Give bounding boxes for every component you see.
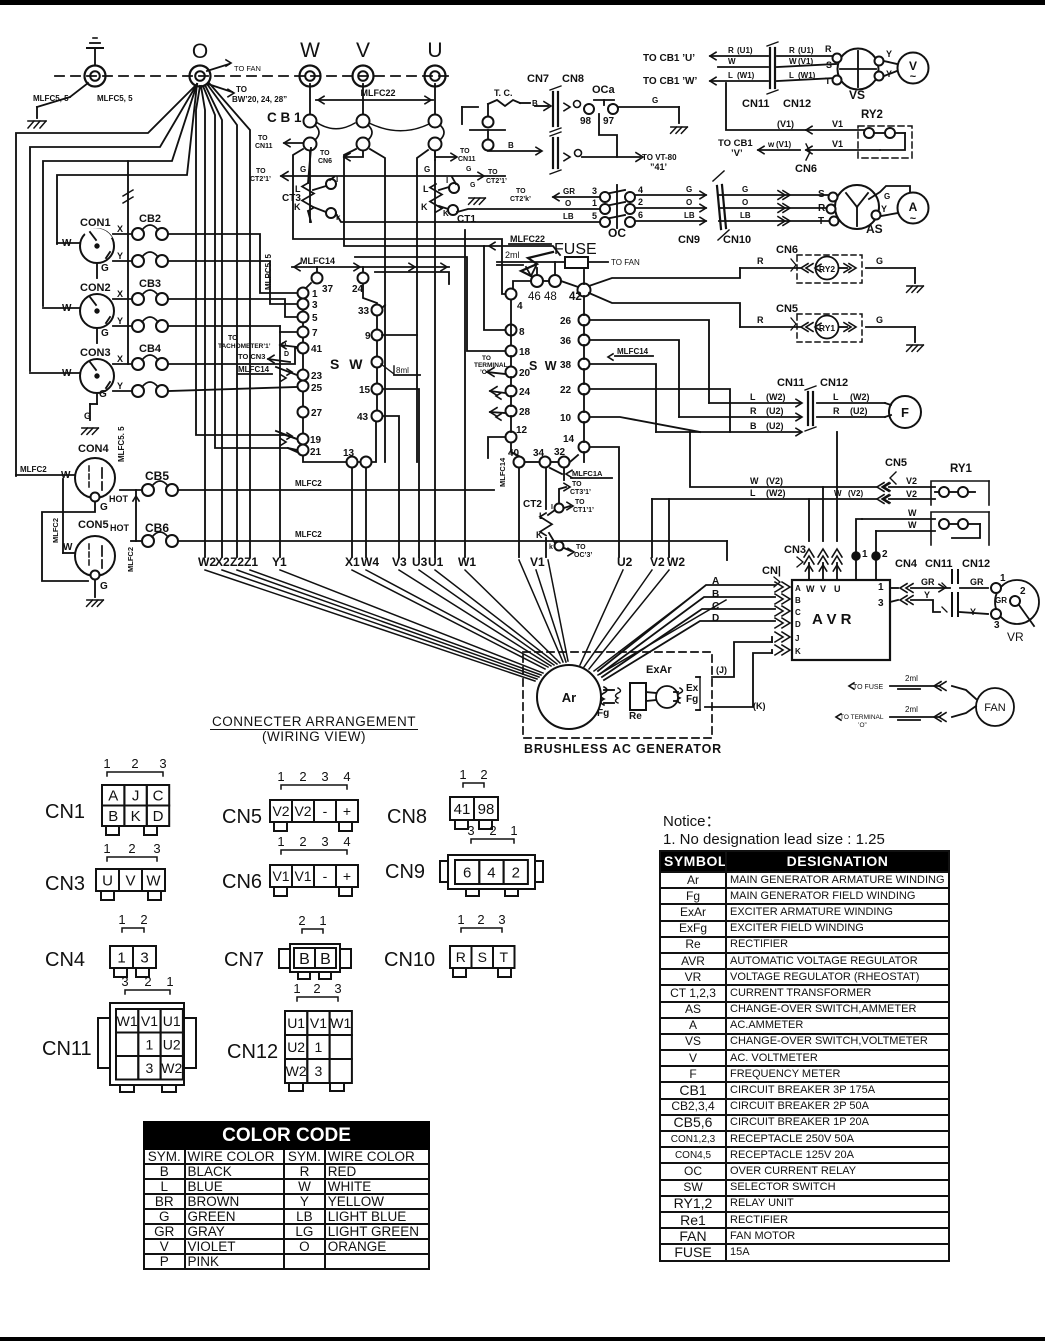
- svg-text:MLFC2: MLFC2: [295, 479, 322, 488]
- svg-text:CN4: CN4: [895, 558, 918, 570]
- svg-text:2: 2: [477, 912, 484, 927]
- svg-text:32: 32: [554, 447, 566, 458]
- wire long verticals mid: [370, 149, 385, 462]
- wire CB1-W to CN11: [284, 142, 303, 144]
- svg-text:K: K: [536, 530, 543, 540]
- svg-text:V2: V2: [294, 803, 311, 819]
- voltage regulator VR: [995, 580, 1039, 624]
- wire 42 fanout: [583, 270, 585, 284]
- wire 13 drops: [351, 468, 353, 557]
- wires xfmr to VS: [777, 55, 836, 57]
- svg-text:T: T: [499, 949, 508, 965]
- svg-text:D: D: [153, 808, 164, 825]
- svg-text:GR: GR: [970, 577, 984, 587]
- change-over switch VS: [838, 49, 879, 90]
- svg-text:8ml: 8ml: [396, 366, 409, 375]
- svg-text:1: 1: [457, 912, 464, 927]
- wire CB1-V to CN6: [344, 151, 363, 157]
- svg-text:TO VT-80: TO VT-80: [642, 153, 677, 162]
- svg-text:O: O: [742, 198, 748, 207]
- svg-text:1: 1: [312, 289, 318, 300]
- svg-text:GR: GR: [921, 577, 935, 587]
- svg-text:L: L: [423, 184, 429, 194]
- wire U2 V2 W2 risers: [651, 499, 653, 557]
- svg-text:G: G: [742, 185, 748, 194]
- color code table: [143, 1121, 430, 1270]
- svg-text:MLFC22: MLFC22: [510, 234, 545, 244]
- junction 46 48 42: [531, 275, 543, 287]
- svg-text:Y: Y: [881, 204, 887, 214]
- svg-text:CT3’1’: CT3’1’: [570, 489, 591, 496]
- svg-text:R: R: [757, 256, 764, 266]
- svg-text:3: 3: [153, 841, 160, 856]
- svg-text:2: 2: [882, 549, 888, 560]
- svg-text:CN10: CN10: [723, 234, 751, 246]
- svg-text:V2: V2: [906, 476, 917, 486]
- transformer CN11 CN12 top: [769, 48, 771, 88]
- wire OCa to ground: [618, 106, 679, 108]
- svg-text:R: R: [818, 203, 826, 214]
- svg-text:S: S: [826, 60, 832, 70]
- svg-text:MLFC22: MLFC22: [360, 88, 395, 98]
- svg-text:3: 3: [159, 756, 166, 771]
- svg-text:CT2’k’: CT2’k’: [510, 196, 531, 203]
- svg-text:34: 34: [533, 448, 545, 459]
- wire CB5 CB6 vertical: [135, 490, 137, 541]
- svg-text:TO: TO: [258, 135, 268, 142]
- svg-text:1: 1: [117, 949, 125, 966]
- wire risers to CN3: [808, 499, 810, 541]
- svg-text:1: 1: [118, 912, 125, 927]
- current transformer CT3: [308, 148, 311, 183]
- frequency meter F: [889, 396, 921, 428]
- wire V1 riser: [726, 83, 806, 130]
- svg-text:CN7: CN7: [527, 73, 549, 85]
- svg-text:W1: W1: [330, 1015, 351, 1031]
- svg-text:TO: TO: [575, 499, 585, 506]
- svg-text:LB: LB: [740, 211, 751, 220]
- svg-text:TO CB1 ’W’: TO CB1 ’W’: [643, 76, 697, 87]
- svg-text:2ml: 2ml: [905, 674, 918, 683]
- svg-text:G: G: [876, 315, 883, 325]
- svg-text:CN11: CN11: [42, 1038, 92, 1060]
- svg-text:Y: Y: [117, 316, 123, 326]
- svg-text:U: U: [102, 872, 113, 889]
- rectifier Re: [630, 683, 646, 710]
- node U terminal: [425, 66, 446, 87]
- svg-text:G: G: [686, 185, 692, 194]
- svg-text:MLFC14: MLFC14: [498, 457, 507, 487]
- svg-text:CN8: CN8: [562, 73, 584, 85]
- svg-text:V1: V1: [272, 868, 289, 884]
- svg-text:41: 41: [454, 801, 471, 818]
- wire SW right columns: [510, 300, 512, 345]
- wire 46 48 to col: [513, 281, 531, 288]
- svg-text:CB3: CB3: [139, 278, 161, 290]
- svg-text:3: 3: [321, 834, 328, 849]
- wire SW right to xfmr rows: [590, 320, 709, 403]
- svg-text:W: W: [789, 57, 797, 66]
- svg-text:ExAr: ExAr: [646, 664, 672, 676]
- svg-text:3: 3: [467, 823, 474, 838]
- svg-text:O: O: [565, 199, 571, 208]
- svg-text:X2: X2: [215, 555, 230, 569]
- svg-text:TO CB1 ’U’: TO CB1 ’U’: [643, 53, 695, 64]
- svg-text:GR: GR: [563, 187, 575, 196]
- svg-text:CT2: CT2: [523, 499, 542, 510]
- svg-text:Y: Y: [117, 381, 123, 391]
- svg-text:2: 2: [480, 767, 487, 782]
- svg-text:3: 3: [334, 981, 341, 996]
- svg-text:BW’20, 24, 28”: BW’20, 24, 28”: [232, 95, 287, 104]
- svg-text:X: X: [117, 289, 123, 299]
- svg-text:VS: VS: [849, 88, 865, 102]
- svg-text:MLFC2: MLFC2: [20, 465, 47, 474]
- svg-text:R: R: [750, 406, 757, 416]
- wire CT2 arrows: [559, 487, 566, 503]
- transformer CN9 CN10: [717, 186, 721, 229]
- svg-text:G: G: [652, 96, 658, 105]
- svg-text:MLPC5. 5: MLPC5. 5: [264, 253, 273, 290]
- svg-text:W4: W4: [361, 555, 379, 569]
- svg-text:G: G: [100, 581, 108, 592]
- schematic svg: [0, 0, 1045, 770]
- svg-text:Fg: Fg: [597, 708, 609, 719]
- junction nodes 1 2: [856, 519, 862, 551]
- svg-text:3: 3: [315, 1063, 323, 1079]
- wire mid verticals: [309, 151, 311, 222]
- svg-text:B: B: [750, 421, 757, 431]
- svg-text:MLFC2: MLFC2: [126, 547, 135, 572]
- svg-text:K: K: [131, 808, 141, 825]
- svg-text:U: U: [834, 584, 841, 594]
- svg-text:CN12: CN12: [820, 377, 848, 389]
- svg-text:V1: V1: [530, 555, 545, 569]
- svg-text:CN6: CN6: [776, 244, 798, 256]
- svg-text:CON1: CON1: [80, 217, 111, 229]
- svg-text:B: B: [108, 808, 118, 825]
- svg-text:TO FUSE: TO FUSE: [853, 684, 884, 691]
- svg-text:CON4: CON4: [78, 443, 109, 455]
- svg-text:L: L: [750, 392, 756, 402]
- svg-text:W2: W2: [161, 1060, 182, 1076]
- svg-text:MLFC14: MLFC14: [300, 256, 335, 266]
- svg-text:MLFC14: MLFC14: [617, 347, 649, 356]
- circuit breaker CB1 tie arcs: [316, 122, 355, 129]
- svg-text:L: L: [789, 71, 794, 80]
- exciter field ExFg: [678, 688, 683, 703]
- svg-text:TO: TO: [572, 481, 582, 488]
- svg-text:5: 5: [312, 313, 318, 324]
- svg-text:1: 1: [293, 981, 300, 996]
- svg-text:1: 1: [510, 823, 517, 838]
- svg-text:TO: TO: [488, 169, 498, 176]
- svg-text:3: 3: [994, 620, 1000, 631]
- svg-text:3: 3: [140, 949, 148, 966]
- svg-text:D: D: [795, 620, 801, 629]
- svg-text:TO TERMINAL: TO TERMINAL: [840, 714, 884, 721]
- svg-text:CN11: CN11: [925, 558, 953, 570]
- svg-text:1: 1: [319, 913, 326, 928]
- svg-text:L: L: [750, 488, 756, 498]
- svg-text:2: 2: [298, 913, 305, 928]
- svg-text:U3: U3: [412, 555, 428, 569]
- svg-text:2: 2: [489, 823, 496, 838]
- svg-text:X: X: [117, 224, 123, 234]
- svg-text:CT1: CT1: [457, 214, 476, 225]
- svg-text:1: 1: [146, 1036, 154, 1052]
- svg-text:I: I: [336, 175, 338, 184]
- svg-text:R: R: [789, 46, 795, 55]
- svg-text:CN12: CN12: [227, 1041, 278, 1063]
- wires OC to CN9 CN10: [635, 194, 706, 196]
- main armature Ar: [537, 665, 601, 729]
- svg-text:4: 4: [487, 864, 495, 881]
- svg-text:W: W: [834, 489, 842, 498]
- svg-text:CN4: CN4: [45, 949, 85, 971]
- svg-text:20: 20: [519, 368, 531, 379]
- svg-text:TACHOMETER’1’: TACHOMETER’1’: [218, 343, 271, 350]
- relay lower box: [862, 518, 935, 520]
- svg-text:37: 37: [322, 284, 334, 295]
- svg-text:G: G: [470, 182, 476, 189]
- svg-text:W: W: [908, 508, 917, 518]
- ground terminal: [85, 66, 106, 87]
- wire CB6 row MLFC2: [178, 540, 727, 542]
- svg-text:+: +: [343, 868, 351, 884]
- node V terminal: [353, 66, 374, 87]
- svg-text:Z2: Z2: [230, 555, 244, 569]
- svg-text:B: B: [508, 141, 514, 150]
- wire TO CB1 W row2: [718, 66, 768, 68]
- svg-text:19: 19: [310, 435, 322, 446]
- svg-text:CON5: CON5: [78, 519, 109, 531]
- svg-text:7: 7: [312, 328, 318, 339]
- svg-text:G: G: [424, 165, 430, 174]
- switch contacts left column: [298, 288, 309, 299]
- svg-text:B: B: [320, 951, 331, 968]
- svg-text:24: 24: [519, 387, 531, 398]
- svg-text:1: 1: [277, 834, 284, 849]
- svg-text:(W1): (W1): [798, 71, 816, 80]
- automatic voltage regulator AVR: [792, 580, 890, 660]
- svg-text:FAN: FAN: [984, 702, 1005, 714]
- svg-text:CN8: CN8: [387, 806, 427, 828]
- transformer to VR: [951, 570, 953, 583]
- svg-text:R: R: [456, 949, 466, 965]
- svg-text:G: G: [101, 263, 109, 274]
- svg-text:W2: W2: [198, 555, 216, 569]
- svg-text:38: 38: [560, 360, 572, 371]
- svg-text:U1: U1: [287, 1015, 305, 1031]
- svg-text:”41’: ”41’: [650, 162, 667, 172]
- svg-text:CN7: CN7: [224, 949, 264, 971]
- svg-text:I: I: [446, 176, 448, 185]
- svg-text:L: L: [728, 71, 733, 80]
- svg-text:24: 24: [352, 284, 364, 295]
- svg-text:C B 1: C B 1: [267, 110, 302, 125]
- svg-text:25: 25: [311, 383, 323, 394]
- svg-text:3: 3: [146, 1060, 154, 1076]
- svg-text:CN|: CN|: [762, 565, 781, 577]
- wire MLFC22 label: [316, 99, 433, 101]
- svg-text:18: 18: [519, 347, 531, 358]
- wire fuse arrow: [521, 252, 553, 276]
- svg-text:D: D: [284, 351, 289, 358]
- svg-text:CN3: CN3: [45, 873, 85, 895]
- svg-text:G: G: [99, 389, 107, 400]
- svg-text:15: 15: [359, 385, 371, 396]
- svg-text:W1: W1: [458, 555, 476, 569]
- svg-text:(W2): (W2): [766, 392, 786, 402]
- svg-text:V1: V1: [832, 139, 843, 149]
- svg-text:CN12: CN12: [962, 558, 990, 570]
- wire 12 drop: [488, 437, 505, 458]
- transformer CN7 CN8 upper: [552, 92, 554, 126]
- svg-text:RY1: RY1: [950, 463, 973, 475]
- svg-text:(V2): (V2): [766, 476, 783, 486]
- svg-text:S: S: [478, 949, 487, 965]
- wire SW left chain: [303, 288, 376, 462]
- svg-text:CN5: CN5: [222, 806, 262, 828]
- wires CN10 to AS: [719, 194, 836, 196]
- svg-text:Y: Y: [924, 590, 930, 600]
- svg-text:(J): (J): [716, 665, 727, 675]
- svg-text:V2: V2: [272, 803, 289, 819]
- svg-text:VR: VR: [1007, 630, 1024, 644]
- svg-text:3: 3: [121, 974, 128, 989]
- svg-text:33: 33: [358, 306, 370, 317]
- svg-text:2: 2: [1020, 586, 1026, 597]
- svg-text:3: 3: [878, 598, 884, 609]
- svg-text:2: 2: [313, 981, 320, 996]
- svg-text:V1: V1: [310, 1015, 327, 1031]
- svg-text:CN11: CN11: [742, 98, 770, 110]
- svg-text:U2: U2: [617, 555, 633, 569]
- svg-text:O: O: [281, 342, 287, 349]
- svg-text:TERMINAL: TERMINAL: [474, 362, 508, 369]
- svg-text:B: B: [299, 951, 310, 968]
- svg-text:+: +: [343, 803, 351, 819]
- svg-text:~: ~: [910, 213, 917, 225]
- svg-text:3: 3: [321, 769, 328, 784]
- svg-text:K: K: [421, 202, 428, 212]
- svg-text:CT1’1’: CT1’1’: [573, 507, 594, 514]
- svg-text:8: 8: [519, 327, 525, 338]
- svg-text:T: T: [825, 76, 831, 86]
- svg-text:G: G: [300, 165, 306, 174]
- svg-text:(W1): (W1): [737, 71, 755, 80]
- wire 15 43 outputs: [383, 389, 419, 557]
- wire MLFC14 bus: [292, 266, 449, 268]
- wire 40 34 32 drops: [518, 468, 520, 557]
- svg-text:1: 1: [1000, 573, 1006, 584]
- svg-text:2: 2: [131, 756, 138, 771]
- svg-text:42: 42: [569, 291, 582, 303]
- top border bar: [0, 0, 1045, 5]
- svg-text:V2: V2: [906, 489, 917, 499]
- wire TO BW from O: [208, 84, 232, 92]
- svg-text:(V1): (V1): [798, 57, 813, 66]
- svg-text:CN5: CN5: [885, 457, 907, 469]
- svg-text:LB: LB: [563, 212, 574, 221]
- svg-text:TO CN3: TO CN3: [238, 352, 265, 361]
- svg-text:CN3: CN3: [784, 544, 806, 556]
- svg-text:27: 27: [311, 408, 323, 419]
- svg-text:O: O: [192, 40, 208, 63]
- dashed neutral bus: [55, 75, 448, 77]
- svg-text:TO: TO: [516, 188, 526, 195]
- svg-text:10: 10: [560, 413, 572, 424]
- svg-text:13: 13: [343, 448, 355, 459]
- svg-text:V: V: [125, 872, 135, 889]
- fan motor FAN: [976, 688, 1014, 726]
- svg-text:(U1): (U1): [798, 46, 814, 55]
- svg-text:G: G: [101, 328, 109, 339]
- svg-text:G: G: [884, 192, 890, 201]
- svg-text:36: 36: [560, 336, 572, 347]
- wire CB1-U to CN11: [435, 151, 455, 157]
- svg-text:CT3: CT3: [282, 193, 301, 204]
- svg-text:CN10: CN10: [384, 949, 435, 971]
- svg-text:U2: U2: [163, 1036, 181, 1052]
- svg-text:X: X: [117, 354, 123, 364]
- svg-text:J: J: [795, 634, 799, 643]
- node O terminal: [190, 66, 211, 87]
- svg-text:D: D: [712, 613, 719, 624]
- svg-text:R: R: [757, 315, 764, 325]
- svg-text:W: W: [750, 476, 759, 486]
- svg-text:28: 28: [519, 407, 531, 418]
- svg-text:5: 5: [592, 211, 597, 221]
- svg-text:1: 1: [592, 198, 597, 208]
- svg-text:1: 1: [315, 1039, 323, 1055]
- svg-text:23: 23: [311, 371, 323, 382]
- svg-text:26: 26: [560, 316, 572, 327]
- svg-text:HOT: HOT: [109, 494, 129, 504]
- symbol designation table: [659, 850, 950, 1262]
- svg-text:TO: TO: [576, 544, 586, 551]
- svg-text:K: K: [443, 209, 449, 218]
- svg-text:41: 41: [311, 344, 323, 355]
- svg-text:X1: X1: [345, 555, 360, 569]
- svg-text:B: B: [795, 596, 801, 605]
- svg-text:CON2: CON2: [80, 282, 111, 294]
- bottom border line: [0, 1337, 1045, 1341]
- svg-text:2: 2: [140, 912, 147, 927]
- svg-text:43: 43: [357, 412, 369, 423]
- svg-text:MLFC2: MLFC2: [51, 518, 60, 543]
- svg-text:W: W: [908, 520, 917, 530]
- switch contacts right column: [312, 273, 323, 284]
- svg-text:CN9: CN9: [385, 861, 425, 883]
- svg-text:V3: V3: [392, 555, 407, 569]
- svg-text:6: 6: [463, 864, 471, 881]
- svg-text:(U1): (U1): [737, 46, 753, 55]
- svg-text:AS: AS: [866, 222, 883, 236]
- svg-text:3: 3: [312, 300, 318, 311]
- svg-text:(U2): (U2): [850, 406, 868, 416]
- svg-text:4: 4: [343, 834, 350, 849]
- svg-text:-: -: [323, 803, 328, 819]
- svg-text:’V’: ’V’: [731, 148, 743, 159]
- svg-text:CB2: CB2: [139, 213, 161, 225]
- svg-text:L: L: [833, 392, 839, 402]
- svg-text:G: G: [100, 502, 108, 513]
- svg-text:MLFC5. 5: MLFC5. 5: [117, 426, 126, 462]
- svg-text:(U2): (U2): [766, 421, 784, 431]
- svg-text:2: 2: [144, 974, 151, 989]
